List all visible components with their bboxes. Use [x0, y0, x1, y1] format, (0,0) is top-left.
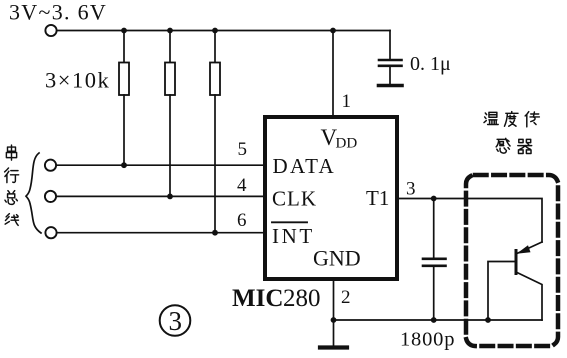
svg-text:280: 280	[283, 285, 321, 312]
resistor R2	[165, 31, 175, 197]
dashed sensor box	[466, 175, 558, 346]
char 传	[525, 112, 539, 127]
node supply-R2	[167, 28, 173, 34]
transistor Q1	[488, 242, 542, 320]
terminal CLK	[45, 191, 56, 202]
svg-text:3×10k: 3×10k	[45, 68, 110, 93]
node R1-DATA	[121, 162, 127, 168]
wire DATA line	[57, 164, 264, 166]
node supply-R1	[121, 28, 127, 34]
collector	[516, 272, 542, 320]
wire pin3 T1 output	[399, 199, 542, 243]
svg-text:T1: T1	[366, 186, 389, 210]
svg-text:5: 5	[238, 139, 248, 160]
node R2-CLK	[167, 194, 173, 200]
svg-text:CLK: CLK	[272, 187, 317, 211]
node supply-R3	[212, 28, 218, 34]
node gnd-C2	[431, 317, 437, 323]
op-amp U1 MIC280 body	[265, 117, 397, 279]
wire pin1	[332, 31, 334, 116]
char 温	[484, 112, 498, 124]
label temperature sensor 温度传感器	[484, 112, 539, 154]
emitter with arrow	[518, 242, 542, 253]
label INT (with overline)	[272, 222, 315, 248]
svg-text:1800p: 1800p	[400, 329, 455, 351]
terminal INT	[45, 227, 56, 238]
wire CLK line	[57, 195, 264, 197]
svg-text:3V~3. 6V: 3V~3. 6V	[9, 0, 107, 25]
svg-text:4: 4	[237, 175, 247, 196]
brace serial bus	[26, 153, 41, 233]
svg-text:6: 6	[237, 210, 247, 231]
terminal DATA	[45, 160, 56, 171]
resistor R3	[210, 31, 220, 233]
svg-text:3: 3	[406, 179, 416, 200]
char 度	[504, 112, 518, 127]
char 总	[5, 191, 17, 205]
terminal supply input	[45, 25, 56, 36]
char 感	[496, 138, 510, 153]
node gnd-pin2	[331, 317, 337, 323]
capacitor C1 0.1u	[379, 31, 403, 86]
char 线	[5, 214, 18, 226]
svg-text:3: 3	[169, 306, 183, 336]
svg-text:GND: GND	[313, 246, 361, 271]
char 行	[5, 168, 19, 183]
capacitor C2 1800p	[423, 199, 446, 321]
wire top supply rail	[57, 30, 390, 32]
label MIC280	[232, 285, 321, 312]
label VDD	[321, 125, 358, 152]
resistor R1	[119, 31, 129, 166]
wire pin2	[333, 281, 335, 320]
svg-text:MIC: MIC	[232, 285, 283, 312]
base lead	[488, 262, 516, 321]
node gnd-base	[485, 317, 491, 323]
base bar	[515, 251, 518, 274]
svg-text:1: 1	[342, 91, 352, 112]
node supply-pin1	[330, 28, 336, 34]
svg-text:2: 2	[341, 287, 351, 308]
svg-text:DATA: DATA	[273, 154, 337, 178]
wire INT line	[57, 232, 263, 234]
char 串	[6, 145, 16, 160]
ground	[320, 320, 347, 348]
char 器	[518, 139, 532, 153]
circled figure number 3	[160, 305, 191, 336]
svg-text:DD: DD	[336, 136, 358, 152]
node pin3-C2	[431, 196, 437, 202]
svg-text:0. 1μ: 0. 1μ	[410, 53, 451, 75]
wire bottom ground rail	[334, 319, 543, 321]
label serial bus 串行总线	[5, 145, 19, 225]
node R3-INT	[212, 230, 218, 236]
svg-text:INT: INT	[272, 224, 315, 248]
